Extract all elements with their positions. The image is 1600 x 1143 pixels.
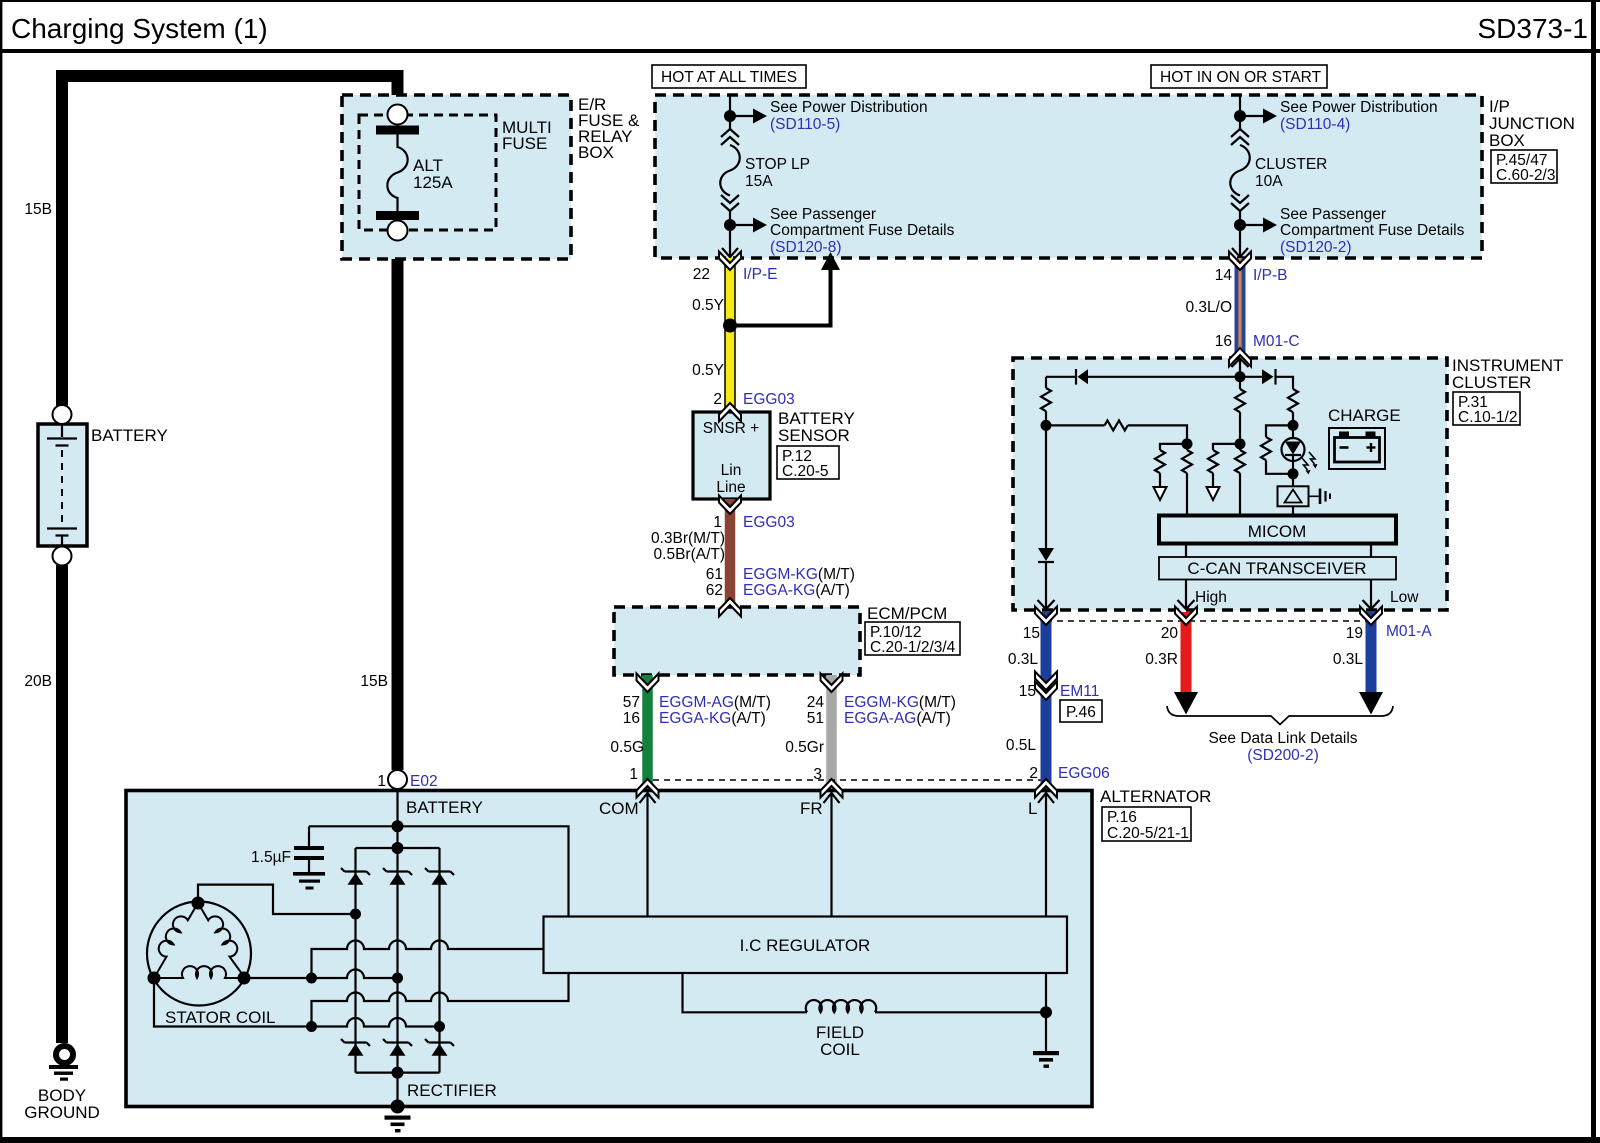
battery terminal circle top [53,405,72,424]
stator winding delta [154,903,245,978]
svg-text:COIL: COIL [820,1040,860,1059]
label INSTRUMENT CLUSTER [1452,356,1563,392]
label Low [1390,589,1419,606]
junction node phase2-col2 [392,973,403,984]
dashed connector row line EGG06 [653,779,1041,781]
label BATTERY [91,426,168,445]
svg-text:1: 1 [629,766,638,783]
svg-text:See Passenger: See Passenger [1280,206,1386,223]
connector chevron I/P-B 14 [1229,252,1251,271]
wire: 0.3L navy (cluster 15 to EM11 to alternator L) [1041,612,1052,791]
svg-text:BATTERY: BATTERY [91,426,168,445]
junction node rectifier bottom [392,1067,404,1079]
label 0.5Y (upper) [692,297,724,314]
ref box P.12 C.20-5 [777,446,839,480]
wire: 0.5G green (ECM pin 57/16 to alternator COM) [642,675,653,791]
svg-text:Low: Low [1390,589,1419,606]
stator coil circle [147,902,251,1006]
svg-text:0.5Gr: 0.5Gr [785,739,824,756]
wire: stop lp fuse feed [729,96,731,130]
wire: thick battery cable top horizontal 15B [56,70,404,82]
svg-text:61: 61 [706,566,723,583]
avalanche diode D8 (lower col2) [383,1039,412,1056]
svg-text:HOT IN ON OR START: HOT IN ON OR START [1160,69,1322,86]
fuse F2 CLUSTER 10A [1230,129,1250,258]
wire: thick cable battery to body ground [56,565,68,1043]
junction node on yellow wire [723,319,737,333]
rectifier column 2 wire [396,848,398,1106]
svg-text:EGGA-AG(A/T): EGGA-AG(A/T) [844,710,951,727]
svg-text:20: 20 [1161,625,1179,642]
connector chevron into alternator L [1035,779,1057,798]
ref box P.46 [1060,700,1102,722]
junction node phase3-col3 [434,1021,445,1032]
dashed connector row M01-A [1046,620,1371,622]
pin chevron FR inside [824,793,840,917]
svg-text:See Power Distribution: See Power Distribution [770,99,928,116]
label 0.5G [610,739,644,756]
label pin 1 (COM) [629,766,638,783]
ECM/PCM dashed box [614,607,860,675]
svg-text:E02: E02 [410,773,438,790]
label COM [599,799,639,818]
svg-text:14: 14 [1215,267,1233,284]
wire: supply rail left segment [1088,376,1240,378]
label 15B (left wire) [24,201,52,218]
junction node (cluster fuse top) [1234,110,1246,122]
fuse F1 STOP LP 15A [720,129,740,258]
body ground symbol [49,1046,78,1081]
svg-text:EGGA-KG(A/T): EGGA-KG(A/T) [659,710,766,727]
svg-text:CLUSTER: CLUSTER [1255,156,1327,173]
label 61 62 / EGGM-KG(M/T) EGGA-KG(A/T) [706,566,855,599]
label 24 51 / EGGM-KG(M/T) EGGA-AG(A/T) [807,694,956,727]
svg-text:SENSOR: SENSOR [778,426,850,445]
label 0.3R [1145,651,1178,668]
stator node bottom-left [148,972,161,985]
I/P junction box feed: cluster fuse wire [1239,96,1241,130]
entry chevron inside cluster + wire to node [1232,359,1249,377]
label pin 3 (FR) [813,766,822,783]
label ALT 125A [413,156,453,192]
svg-text:0.3L/O: 0.3L/O [1185,299,1232,316]
connector chevron into alternator FR [821,779,843,798]
svg-text:BOX: BOX [578,143,614,162]
svg-text:57: 57 [623,694,640,711]
wire: 0.3R red CAN High + end arrow [1174,612,1198,715]
label 2 / EGG06 [1029,765,1109,782]
svg-text:16: 16 [623,710,640,727]
avalanche diode D5 (upper col2) [383,868,412,885]
label 0.3Br(M/T) 0.5Br(A/T) [651,530,725,563]
wire: phase 2 (bottom-right vertex to column 2, hop over col1) [244,970,398,979]
svg-text:10A: 10A [1255,173,1283,190]
resistor R7 to MICOM [1235,444,1245,516]
svg-text:0.3R: 0.3R [1145,651,1178,668]
junction node (stop lp bottom) [724,219,736,231]
svg-text:EGGM-AG(M/T): EGGM-AG(M/T) [659,694,771,711]
junction node phase2 tap [306,973,317,984]
ground for regulator/field [1033,1012,1059,1068]
svg-text:2: 2 [713,391,722,408]
label STATOR COIL [165,1008,276,1027]
svg-text:SD373-1: SD373-1 [1477,13,1588,44]
label CLUSTER 10A [1255,156,1327,190]
label See Power Distribution (SD110-4) [1280,99,1438,133]
multi fuse ALT 125A: terminals, bars and element [376,126,419,221]
svg-text:Charging System (1): Charging System (1) [11,13,268,44]
connector chevron M01-C into cluster [1229,348,1251,367]
multi fuse inner dashed box [359,115,496,230]
wire: 0.5Y yellow [724,258,736,412]
connector chevron Low [1360,607,1382,626]
svg-text:GROUND: GROUND [24,1103,100,1122]
svg-text:CLUSTER: CLUSTER [1452,373,1531,392]
junction node phase1-col1 [350,909,361,920]
label 20B [24,673,52,690]
svg-text:ALTERNATOR: ALTERNATOR [1100,787,1211,806]
connector chevron ECM right exit [821,674,843,693]
svg-text:15A: 15A [745,173,773,190]
svg-text:62: 62 [706,582,723,599]
wire: rectifier bottom bus [356,1071,440,1073]
svg-text:EGGA-KG(A/T): EGGA-KG(A/T) [743,582,850,599]
wire battery pin into box [396,789,398,826]
connector chevron High [1175,607,1197,626]
svg-text:16: 16 [1215,333,1232,350]
label BATTERY SENSOR [778,409,855,445]
svg-text:RECTIFIER: RECTIFIER [407,1081,497,1100]
svg-text:BATTERY: BATTERY [406,798,483,817]
wire: phase 1 (top vertex to column 1) [198,885,356,914]
label 0.3L (right) [1333,651,1364,668]
label BODY GROUND [24,1086,100,1122]
ref box P.31 C.10-1/2 [1453,392,1520,426]
svg-text:0.5Br(A/T): 0.5Br(A/T) [654,546,725,563]
svg-text:C.60-2/3: C.60-2/3 [1496,167,1555,184]
label 14 / I/P-B [1215,267,1288,284]
arrow: see passenger compartment (left) [730,218,767,233]
svg-text:P.46: P.46 [1066,704,1096,721]
svg-text:Compartment Fuse Details: Compartment Fuse Details [1280,222,1465,239]
svg-text:EM11: EM11 [1060,683,1099,700]
svg-text:2: 2 [1029,765,1038,782]
label ECM/PCM [867,604,947,623]
svg-text:Lin: Lin [721,462,742,479]
I.C regulator box U5 [544,917,1068,974]
junction node battery bus [392,820,404,832]
ground for rectifier [385,1116,411,1133]
svg-text:0.5L: 0.5L [1006,737,1037,754]
ground for capacitor [293,872,325,890]
svg-text:See Power Distribution: See Power Distribution [1280,99,1438,116]
label 0.5Gr [785,739,824,756]
wire: battery bus to regulator [309,826,569,916]
label CHARGE [1328,406,1401,425]
svg-text:FR: FR [800,799,823,818]
rectifier column 1 wire [354,848,356,1073]
arrow: see power distribution (right) [1240,109,1277,124]
exit chevron pin15 inside cluster [1038,600,1055,609]
svg-text:0.3L: 0.3L [1333,651,1364,668]
junction node (cluster fuse bottom) [1234,219,1246,231]
connector chevron into alternator COM [637,779,659,798]
inline connector EM11 (double chevron) [1035,672,1057,701]
wire: branch to up-arrow (goes elsewhere) [730,252,840,326]
resistor R4 to MICOM [1182,444,1192,516]
svg-text:C-CAN TRANSCEIVER: C-CAN TRANSCEIVER [1187,559,1366,578]
wire: left branch vertical + resistor R1 [1041,377,1051,426]
title: Charging System (1) [11,13,268,44]
label 20 [1161,625,1179,642]
svg-text:C.10-1/2: C.10-1/2 [1458,409,1517,426]
svg-text:(SD200-2): (SD200-2) [1247,747,1319,764]
connector chevron into sensor (2 EGG03) [719,403,741,422]
svg-text:15B: 15B [360,673,388,690]
svg-text:I/P-B: I/P-B [1253,267,1287,284]
svg-text:M01-C: M01-C [1253,333,1300,350]
wire: 0.5Gr gray (ECM pin 24/51 to alternator FR) [826,675,837,791]
svg-text:CHARGE: CHARGE [1328,406,1401,425]
ref box P.10/12 C.20-1/2/3/4 [865,622,960,656]
label I/P JUNCTION BOX [1489,97,1575,150]
svg-text:(SD120-2): (SD120-2) [1280,239,1352,256]
connector chevron cluster pin15 [1035,607,1057,626]
label 15B (fuse wire) [360,673,388,690]
svg-text:(SD110-5): (SD110-5) [770,116,840,133]
label 0.5Y (lower) [692,362,724,379]
junction node (stop lp top) [724,110,736,122]
junction node left branch [1041,420,1052,431]
svg-text:EGG06: EGG06 [1058,765,1110,782]
arrow: see passenger compartment (right) [1240,218,1277,233]
junction node field-ground [1040,1006,1052,1018]
resistor R3 with open arrow (pull-down stub) [1154,444,1188,500]
wire: phase 3 sense to regulator bottom (hops over columns) [312,973,569,1027]
svg-text:ECM/PCM: ECM/PCM [867,604,947,623]
svg-text:Compartment Fuse Details: Compartment Fuse Details [770,222,955,239]
junction node micom input 2 [1235,438,1246,449]
svg-text:BOX: BOX [1489,131,1525,150]
label E/R FUSE & RELAY BOX [578,95,640,162]
svg-text:C.20-5/21-1: C.20-5/21-1 [1107,825,1189,842]
svg-text:0.3Br(M/T): 0.3Br(M/T) [651,530,725,547]
wires MICOM to C-CAN [1186,544,1371,558]
svg-text:125A: 125A [413,173,453,192]
label 2 / EGG03 [713,391,794,408]
E/R fuse and relay box (outer dashed) [342,95,571,259]
battery terminal circle bottom [53,547,72,566]
wire: thick cable left vertical to battery [56,70,68,406]
label 57 16 / EGGM-AG(M/T) EGGA-KG(A/T) [623,694,771,727]
field coil L1 [806,1000,876,1012]
label BATTERY (alternator pin) [406,798,483,817]
ref box P.16 C.20-5/21-1 [1102,807,1191,842]
pin chevron L inside [1038,793,1054,917]
MICOM box U3 [1159,516,1396,544]
C-CAN TRANSCEIVER box U4 [1159,557,1396,580]
wire: phase 2 sense to regulator (hops over columns) [312,941,544,979]
diode D3 on left branch to pin 15 [1038,425,1054,609]
svg-text:15B: 15B [24,201,52,218]
wire: 0.3L navy CAN Low + end arrow [1359,612,1383,715]
label FR [800,799,823,818]
svg-text:0.5G: 0.5G [610,739,644,756]
instrument cluster dashed box [1013,358,1447,610]
wire: supply rail right segment [1240,376,1262,378]
avalanche diode D4 (upper col1) [341,868,370,885]
svg-text:1: 1 [713,514,722,531]
arrow: see power distribution (left) [730,109,767,124]
svg-text:STOP LP: STOP LP [745,156,810,173]
svg-text:EGGM-KG(M/T): EGGM-KG(M/T) [844,694,956,711]
label L [1028,799,1037,818]
label RECTIFIER [407,1081,497,1100]
svg-text:1.5µF: 1.5µF [251,849,291,866]
junction node micom input 1 [1182,438,1193,449]
ref box P.45/47 C.60-2/3 [1491,150,1557,184]
svg-text:P.16: P.16 [1107,809,1137,826]
label 0.5L [1006,737,1037,754]
wire CAN High inside + exit chevron [1178,580,1195,610]
avalanche diode D6 (upper col3) [425,868,454,885]
svg-text:EGGM-KG(M/T): EGGM-KG(M/T) [743,566,855,583]
wire: 0.3Br brown [725,499,736,608]
avalanche diode D7 (lower col1) [341,1039,370,1056]
arrowhead exit I/P-B [1232,248,1248,257]
label STOP LP 15A [745,156,810,190]
resistor R6 with open arrow [1207,444,1241,500]
svg-text:EGG03: EGG03 [743,391,795,408]
diode D1 (left, pointing left) [1046,369,1088,385]
svg-text:51: 51 [807,710,824,727]
label 16 / M01-C [1215,333,1300,350]
resistor R8 (lamp branch) [1288,389,1298,425]
capacitor C1 1.5uF [294,826,324,872]
svg-text:0.3L: 0.3L [1008,651,1039,668]
svg-text:See Passenger: See Passenger [770,206,876,223]
buzzer (sounder) box [1278,474,1309,516]
wire: field coil to ground node / L pass-through [875,973,1046,1012]
label 15 / EM11 [1019,683,1100,700]
svg-text:24: 24 [807,694,825,711]
wire: 0.3L/O blue-orange stripe [1235,258,1246,357]
wire: thick cable from fuse down to alternator E02 [392,70,404,770]
label 1.5uF [251,849,291,866]
connector circle E02 pin 1 [388,770,407,789]
wire: regulator to field coil [683,973,808,1012]
svg-text:L: L [1028,799,1037,818]
LED charge warning lamp [1282,425,1318,474]
label 1 / EGG03 [713,514,794,531]
svg-text:C.20-5: C.20-5 [782,463,829,480]
svg-text:EGG03: EGG03 [743,514,795,531]
svg-text:I/P-E: I/P-E [743,266,777,283]
svg-text:I.C REGULATOR: I.C REGULATOR [740,936,871,955]
label 22 / I/P-E [693,266,778,283]
multi fuse terminal circle top [388,105,408,125]
connector chevron ECM left exit [637,674,659,693]
svg-text:20B: 20B [24,673,52,690]
label High [1195,589,1227,606]
svg-text:1: 1 [377,773,386,790]
brace for data link [1167,706,1393,725]
label See Data Link Details (SD200-2) [1208,730,1357,764]
junction node lamp bottom [1288,468,1299,479]
label 15 (upper) [1023,625,1040,642]
svg-text:19: 19 [1346,625,1363,642]
rectifier column 3 wire [438,848,440,1073]
svg-text:15: 15 [1019,683,1036,700]
junction node rectifier top [392,842,404,854]
junction node rectifier ground on box edge [391,1100,405,1114]
label ALTERNATOR [1100,787,1211,806]
label 0.3L (left) [1008,651,1039,668]
diode D2 (pointing right) [1262,369,1293,389]
resistor R5 (middle branch) [1235,377,1245,439]
svg-text:SNSR +: SNSR + [703,420,759,437]
label See Passenger Compartment Fuse Details (SD120-2) [1280,206,1465,256]
label 1 / E02 [377,773,437,790]
connector chevron I/P-E 22 [719,252,741,271]
label box HOT AT ALL TIMES [652,65,806,88]
label 0.3L/O [1185,299,1232,316]
svg-text:FUSE: FUSE [502,134,547,153]
junction node lamp top [1288,420,1299,431]
stator node bottom-right [238,972,251,985]
svg-text:COM: COM [599,799,639,818]
svg-text:HOT AT ALL TIMES: HOT AT ALL TIMES [661,69,797,86]
label FIELD COIL [816,1023,864,1059]
pin chevron COM inside [640,793,656,917]
svg-text:0.5Y: 0.5Y [692,362,724,379]
arrowhead exit I/P-E [722,248,738,257]
wire: phase 3 (bottom-left vertex to column 3, hops) [154,978,440,1027]
junction node phase3 tap [306,1021,317,1032]
connector chevron below sensor (1 EGG03) [719,496,741,515]
svg-text:0.5Y: 0.5Y [692,297,724,314]
junction node cluster supply [1235,371,1246,382]
svg-text:15: 15 [1023,625,1040,642]
multi fuse terminal circle bottom [388,221,408,241]
svg-text:See Data Link Details: See Data Link Details [1208,730,1357,747]
svg-text:Line: Line [716,479,745,496]
battery sensor box U2 SNSR+ [693,412,770,499]
resistor R9 parallel to lamp [1261,425,1293,473]
sounder output symbol [1309,489,1331,505]
sheet number SD373-1 [1477,13,1588,44]
wire: rectifier top interconnect [356,826,440,848]
hot-bus dashed box (fuse panel) [655,95,1482,258]
label MULTI FUSE [502,118,552,153]
stator node top [192,897,205,910]
wire CAN Low inside + exit chevron [1363,580,1380,610]
label See Power Distribution (SD110-5) [770,99,928,133]
avalanche diode D9 (lower col3) [425,1039,454,1056]
label 19 / M01-A [1346,623,1433,642]
svg-text:High: High [1195,589,1227,606]
resistor R2 (horizontal) [1046,420,1187,438]
connector chevron into ECM [719,598,741,617]
svg-text:(SD110-4): (SD110-4) [1280,116,1350,133]
svg-text:MICOM: MICOM [1248,522,1307,541]
svg-text:M01-A: M01-A [1386,623,1432,640]
svg-text:STATOR COIL: STATOR COIL [165,1008,276,1027]
svg-text:C.20-1/2/3/4: C.20-1/2/3/4 [870,639,956,656]
battery BT1 box [38,424,87,546]
label box HOT IN ON OR START [1151,65,1327,88]
charge battery icon [1329,428,1385,469]
